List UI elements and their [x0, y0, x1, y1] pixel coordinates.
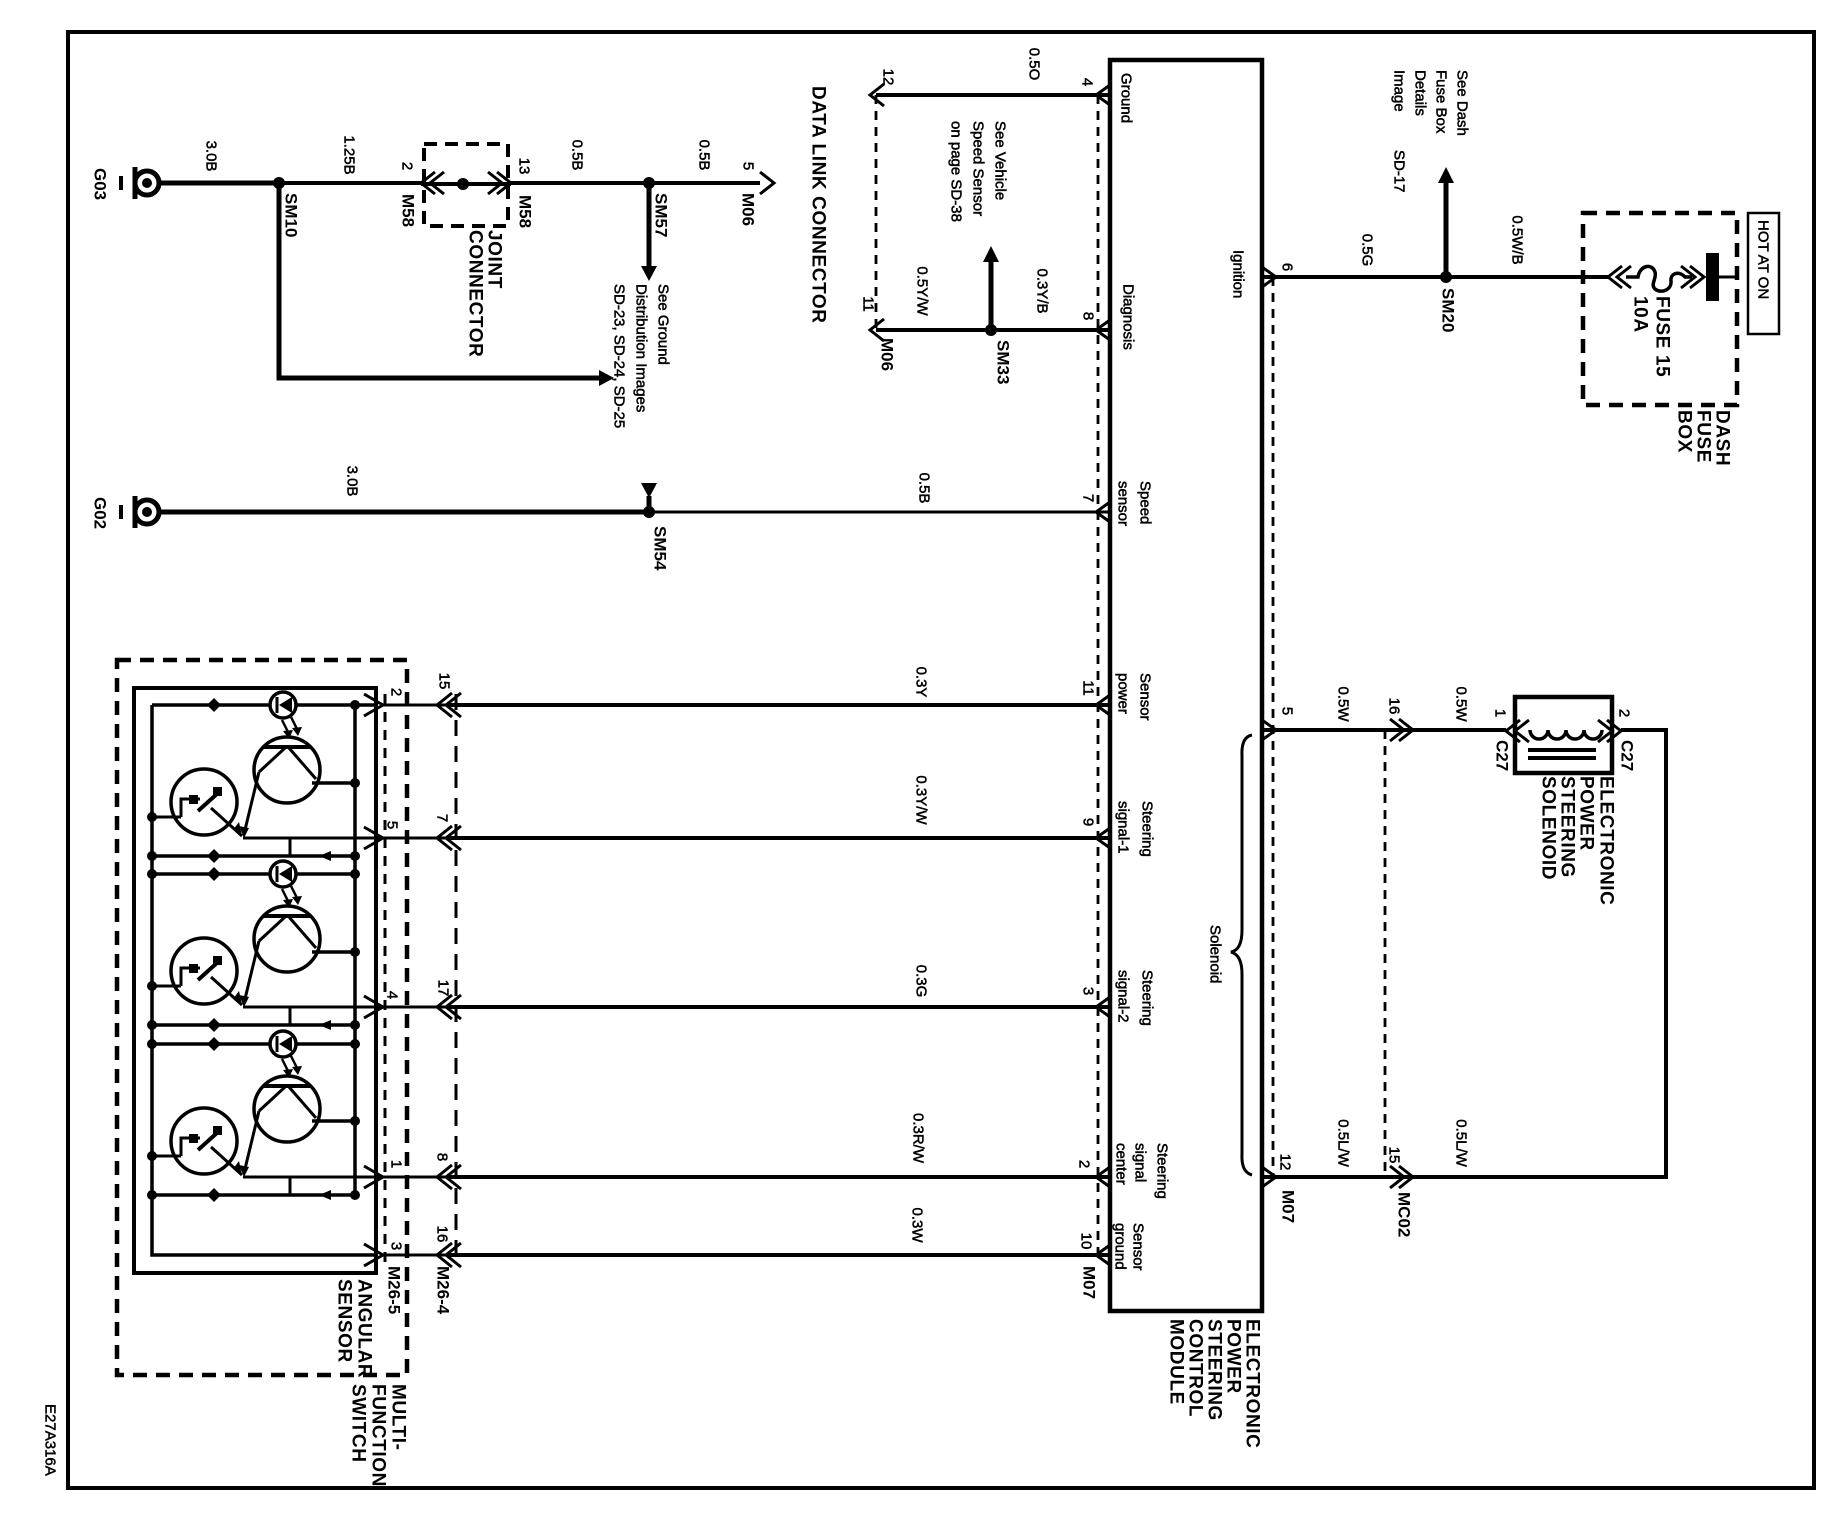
svg-text:Steering: Steering [1139, 970, 1156, 1026]
junction SM54 [643, 506, 655, 518]
sensor pin 5 arrow [364, 827, 383, 849]
svg-text:SM10: SM10 [282, 193, 301, 237]
svg-text:11: 11 [860, 296, 877, 312]
pin number 5 [1279, 707, 1296, 715]
svg-text:0.3Y: 0.3Y [913, 667, 930, 698]
svg-text:10A: 10A [1630, 296, 1651, 333]
wire 0.5Y/W pin11 to SM33 [876, 328, 991, 332]
svg-text:6: 6 [1279, 263, 1296, 271]
svg-text:SM54: SM54 [651, 526, 670, 571]
pin number 1 [1492, 709, 1509, 717]
wire 1.25B SM10 to M58 [279, 181, 421, 185]
pin number 17 [435, 980, 452, 997]
value label 1.25B [341, 135, 358, 174]
svg-text:STEERING: STEERING [1557, 776, 1578, 878]
wire 0.5W/B SM20 to fuse box [1446, 275, 1608, 279]
pin number 4 [1079, 78, 1096, 86]
light arrows D2 [282, 886, 302, 908]
connector pin 17 chevron [437, 995, 461, 1019]
svg-text:SENSOR: SENSOR [334, 1279, 355, 1363]
pin number 2 [399, 162, 416, 170]
value label 0.3Y [913, 667, 930, 698]
pin number 7 [434, 814, 451, 822]
connector pin 7 chevron [437, 826, 461, 850]
pin number 9 [1080, 818, 1097, 826]
value label 0.5W [1453, 686, 1470, 722]
wire cell1 bus [147, 849, 360, 863]
label M06 [739, 193, 758, 226]
pin number 1 [388, 1160, 405, 1168]
connector face M07 dashed left [1097, 95, 1100, 1256]
wire rail to Q3B [147, 1151, 181, 1161]
svg-text:M07: M07 [1279, 1190, 1298, 1223]
value label 0.3Y/W [913, 775, 930, 825]
terminal pin 5 M06 chevron [760, 172, 774, 194]
svg-text:G03: G03 [91, 168, 110, 200]
connector face M26-4 dashed [455, 694, 458, 1262]
note see ground distribution [611, 284, 672, 428]
wire SM10 branch down and right [279, 183, 599, 378]
svg-text:Solenoid: Solenoid [1207, 925, 1224, 983]
phototransistor Q2A [239, 906, 320, 1007]
junction mark cell3 [207, 1037, 221, 1051]
angular sensor box [134, 688, 376, 1273]
svg-text:Steering: Steering [1139, 801, 1156, 857]
module pin 7 chevron [1096, 502, 1110, 522]
connector face M07 dashed right [1272, 277, 1275, 1178]
arrow to ground distribution note [641, 266, 657, 281]
label SM57 [652, 193, 671, 237]
label SM20 [1439, 288, 1458, 332]
svg-text:signal-2: signal-2 [1115, 970, 1132, 1023]
wire SM57 down to note arrow [647, 183, 652, 267]
svg-text:0.3W: 0.3W [909, 1207, 926, 1243]
svg-text:See Vehicle: See Vehicle [992, 121, 1009, 200]
svg-text:15: 15 [436, 673, 453, 690]
svg-text:FUNCTION: FUNCTION [368, 1384, 389, 1487]
svg-text:Speed: Speed [1137, 481, 1154, 524]
module pin 4 chevron [1096, 85, 1110, 105]
svg-text:signal-1: signal-1 [1115, 801, 1132, 854]
pin number 5 [740, 162, 757, 170]
power tag HOT AT ON [1748, 213, 1779, 334]
note see vehicle speed sensor [948, 121, 1009, 222]
value label 0.5W/B [1509, 215, 1526, 264]
svg-text:3.0B: 3.0B [344, 466, 361, 497]
pin number 5 [384, 821, 401, 829]
brace solenoid pin group [1231, 735, 1252, 1175]
phototransistor Q1A [239, 737, 320, 838]
label M58 (pin 13) [516, 195, 535, 228]
fuse F15 supply bar [1706, 253, 1737, 301]
svg-text:HOT AT ON: HOT AT ON [1755, 220, 1772, 299]
wire 0.5B SM54 to module pin 7 [649, 511, 1110, 514]
svg-text:11: 11 [1080, 680, 1097, 696]
junction mark cell2 [207, 867, 221, 881]
svg-text:3: 3 [1080, 987, 1097, 995]
svg-text:MC02: MC02 [1395, 1192, 1414, 1237]
svg-text:FUSE 15: FUSE 15 [1652, 296, 1673, 377]
svg-text:0.5L/W: 0.5L/W [1335, 1119, 1352, 1167]
label Solenoid [1207, 925, 1224, 983]
svg-text:See Dash: See Dash [1454, 70, 1471, 136]
junction inside joint connector [421, 178, 511, 190]
svg-text:E27A316A: E27A316A [42, 1404, 59, 1476]
pin number 2 [388, 688, 405, 696]
wire cell2 photodiode row [147, 869, 360, 879]
wire rail to Q1B [147, 812, 181, 822]
label M07 (pin 12) [1279, 1190, 1298, 1223]
svg-text:13: 13 [516, 158, 533, 175]
pin name Steering signal-1 [1115, 801, 1156, 857]
svg-text:0.5W: 0.5W [1453, 686, 1470, 722]
label DASH FUSE BOX [1674, 410, 1733, 466]
phototransistor Q3A [239, 1076, 320, 1177]
solenoid L1 coil [1530, 730, 1602, 739]
label G02 [91, 497, 110, 529]
pin number 12 [880, 69, 897, 86]
pin number 12 [1277, 1154, 1294, 1171]
pin number 2 [1616, 709, 1633, 717]
svg-text:STEERING: STEERING [1204, 1319, 1225, 1421]
photodiode D1 [270, 692, 296, 718]
svg-text:0.5B: 0.5B [569, 140, 586, 171]
pin number 6 [1279, 263, 1296, 271]
svg-text:M07: M07 [1080, 1266, 1099, 1299]
wire sensor left rail [152, 705, 376, 1255]
svg-text:SM33: SM33 [994, 340, 1013, 384]
svg-text:SWITCH: SWITCH [348, 1384, 369, 1463]
transistor Q1B [171, 769, 242, 836]
value label 3.0B [344, 466, 361, 497]
connector pin 2 M58 chevron [421, 172, 444, 194]
fuse F15 chevron right [1681, 266, 1704, 288]
wire 0.3W sensor pin3 to module pin 10 [383, 1254, 1110, 1257]
value label 0.5L/W left [1335, 1119, 1352, 1167]
label M26-5 [385, 1266, 404, 1314]
fuse F15 chevron left [1608, 266, 1631, 288]
svg-text:1: 1 [388, 1160, 405, 1168]
svg-text:9: 9 [1080, 818, 1097, 826]
junction SM10 [273, 177, 285, 189]
pin number 7 [1080, 494, 1097, 502]
value label 0.3R/W [910, 1113, 927, 1164]
pin number 2 [1076, 1160, 1093, 1168]
module pin 12 chevron [1262, 1167, 1276, 1187]
svg-text:10: 10 [1078, 1233, 1095, 1250]
pin number 11 [1080, 680, 1097, 696]
connector face M06 dashed [875, 95, 878, 330]
label M07 (pin 10) [1080, 1266, 1099, 1299]
transistor Q3B [171, 1108, 242, 1175]
svg-text:16: 16 [434, 1226, 451, 1243]
svg-text:on page SD-38: on page SD-38 [948, 121, 965, 222]
module pin 11 chevron [1096, 695, 1110, 715]
module pin 2 chevron [1096, 1167, 1110, 1187]
pin number 11 [860, 296, 877, 312]
connector pin 16 chevron [437, 1243, 461, 1267]
svg-text:CONNECTOR: CONNECTOR [465, 230, 486, 358]
ground G02 [121, 496, 159, 528]
wire Q3A collector to rail [312, 1116, 360, 1126]
wire 0.3Y sensor pin2 to module pin 11 [383, 704, 1110, 707]
wire cell2 output [243, 1007, 383, 1025]
label FUSE 15 10A [1630, 296, 1673, 377]
svg-text:0.5Y/W: 0.5Y/W [914, 266, 931, 316]
note see dash fuse box details [1391, 70, 1471, 193]
svg-text:2: 2 [1616, 709, 1633, 717]
svg-text:0.5O: 0.5O [1026, 48, 1043, 81]
wire cell3 output [243, 1177, 383, 1195]
svg-text:SOLENOID: SOLENOID [1538, 776, 1559, 880]
svg-text:1: 1 [1492, 709, 1509, 717]
svg-text:Steering: Steering [1154, 1143, 1171, 1199]
wire cell1 photodiode row [152, 703, 378, 707]
wire 0.3G sensor pin4 to module pin 3 [383, 1006, 1110, 1009]
joint connector dashed box [424, 144, 508, 226]
pin name Diagnosis [1120, 284, 1137, 350]
svg-text:2: 2 [1076, 1160, 1093, 1168]
pin name Sensor ground [1112, 1223, 1147, 1271]
svg-text:Ground: Ground [1118, 73, 1135, 123]
wire solenoid pin2 loop to module pin 12 [1262, 730, 1666, 1177]
svg-text:power: power [1115, 673, 1132, 714]
label G03 [91, 168, 110, 200]
pin number 8 [434, 1153, 451, 1161]
pin number 10 [1078, 1233, 1095, 1250]
svg-text:ground: ground [1112, 1223, 1129, 1270]
label M58 [399, 194, 418, 227]
pin number 16 [434, 1226, 451, 1243]
wire 0.5G module pin6 to SM20 [1262, 275, 1446, 279]
svg-text:3: 3 [388, 1242, 405, 1250]
svg-text:DATA LINK CONNECTOR: DATA LINK CONNECTOR [808, 86, 829, 324]
wire cell2 bus [147, 1018, 360, 1032]
wire sensor right rail [353, 705, 357, 1195]
pin number 3 [388, 1242, 405, 1250]
svg-text:4: 4 [384, 991, 401, 999]
connector pin 15 chevron [1390, 1166, 1413, 1188]
sensor pin 1 arrow [364, 1166, 383, 1188]
wire 0.3Y/W sensor pin5 to module pin 9 [383, 837, 1110, 840]
solenoid pin 1 chevron [1506, 720, 1529, 742]
label MULTI-FUNCTION SWITCH [348, 1384, 409, 1487]
solenoid pin 2 chevron [1598, 720, 1621, 742]
wire cell1 output [243, 838, 383, 856]
svg-text:JOINT: JOINT [484, 230, 505, 289]
module pin 6 chevron [1262, 267, 1276, 287]
svg-text:Sensor: Sensor [1137, 673, 1154, 721]
terminal pin 12 chevron [870, 84, 884, 106]
wire 0.3Y/B SM33 to module pin 8 [991, 328, 1110, 332]
connector pin 13 M58 chevron [488, 172, 511, 194]
wire 0.5B SM57 to M06 [649, 181, 760, 185]
svg-text:SM20: SM20 [1439, 288, 1458, 332]
svg-text:Image: Image [1391, 70, 1408, 112]
svg-text:8: 8 [434, 1153, 451, 1161]
svg-text:5: 5 [740, 162, 757, 170]
svg-text:7: 7 [1080, 494, 1097, 502]
wire Q1A collector to rail [312, 778, 360, 788]
sensor pin 3 arrow [364, 1244, 383, 1266]
svg-text:See Ground: See Ground [655, 284, 672, 365]
terminal pin 11 chevron [870, 319, 884, 341]
svg-text:MODULE: MODULE [1166, 1319, 1187, 1405]
value label 3.0B [203, 141, 220, 172]
svg-text:12: 12 [880, 69, 897, 86]
label SM33 [994, 340, 1013, 384]
arrow SM20 to dash fuse box note [1438, 167, 1454, 277]
svg-text:ELECTRONIC: ELECTRONIC [1242, 1319, 1263, 1449]
junction SM57 [643, 177, 655, 189]
svg-text:C27: C27 [1493, 740, 1512, 771]
svg-text:G02: G02 [91, 497, 110, 529]
svg-text:0.5B: 0.5B [916, 473, 933, 504]
wire 3.0B G03 to SM10 [159, 181, 279, 186]
light arrows D3 [282, 1056, 302, 1078]
svg-text:5: 5 [1279, 707, 1296, 715]
junction SM20 [1440, 271, 1452, 283]
pin number 15 [436, 673, 453, 690]
value label 0.5B [696, 140, 713, 171]
label C27 (pin 1) [1493, 740, 1512, 771]
svg-text:0.3G: 0.3G [913, 965, 930, 998]
value label 0.5B [916, 473, 933, 504]
junction dot rail right top [350, 700, 360, 710]
svg-text:15: 15 [1386, 1147, 1403, 1164]
pin number 3 [1080, 987, 1097, 995]
wire 0.5O pin12 to module pin 4 [876, 93, 1110, 97]
svg-text:M58: M58 [516, 195, 535, 228]
pin name Steering signal center [1113, 1143, 1171, 1199]
svg-text:0.3Y/B: 0.3Y/B [1034, 268, 1051, 313]
svg-text:8: 8 [1080, 312, 1097, 320]
svg-text:16: 16 [1386, 698, 1403, 715]
pin number 8 [1080, 312, 1097, 320]
connector pin 16 chevron [1390, 719, 1413, 741]
svg-text:CONTROL: CONTROL [1185, 1319, 1206, 1417]
wire rail to Q2B [147, 981, 181, 991]
arrow to ground distribution note (branch) [599, 370, 614, 386]
photodiode D2 [270, 861, 296, 887]
module pin 10 chevron [1096, 1245, 1110, 1265]
pin name Steering signal-2 [1115, 970, 1156, 1026]
svg-text:Details: Details [1412, 70, 1429, 116]
label SM10 [282, 193, 301, 237]
module pin 3 chevron [1096, 997, 1110, 1017]
svg-text:DASH: DASH [1712, 410, 1733, 466]
value label 0.5O [1026, 48, 1043, 81]
wire 0.5W module pin5 to connector 16 [1262, 728, 1506, 732]
label DATA LINK CONNECTOR [808, 86, 829, 324]
solenoid L1 core [1528, 750, 1596, 758]
svg-text:3.0B: 3.0B [203, 141, 220, 172]
value label 0.3Y/B [1034, 268, 1051, 313]
transistor Q2B [171, 938, 242, 1005]
value label 0.5G [1359, 234, 1376, 267]
photodiode D3 [270, 1031, 296, 1057]
svg-text:SD-17: SD-17 [1391, 150, 1408, 193]
wire Q2A collector to rail [312, 947, 360, 957]
module pin 8 chevron [1096, 320, 1110, 340]
svg-text:sensor: sensor [1115, 481, 1132, 526]
connector face M26-5 dashed [384, 694, 387, 1262]
module pin 5 chevron [1262, 720, 1276, 740]
fuse F15 element [1626, 266, 1692, 291]
svg-text:Ignition: Ignition [1230, 250, 1247, 298]
svg-text:2: 2 [399, 162, 416, 170]
svg-text:signal: signal [1132, 1143, 1149, 1182]
pin name Sensor power [1115, 673, 1154, 721]
svg-text:Distribution Images: Distribution Images [633, 284, 650, 412]
connector pin 8 chevron [437, 1165, 461, 1189]
value label 0.3G [913, 965, 930, 998]
module pin 9 chevron [1096, 828, 1110, 848]
svg-text:7: 7 [434, 814, 451, 822]
svg-text:M26-5: M26-5 [385, 1266, 404, 1314]
svg-text:17: 17 [435, 980, 452, 997]
label M06 [878, 338, 897, 371]
light arrows D1 [282, 717, 302, 739]
label ANGULAR SENSOR [334, 1279, 375, 1378]
sensor pin 2 arrow [364, 694, 383, 716]
svg-text:Speed Sensor: Speed Sensor [970, 121, 987, 216]
ground G03 [121, 167, 159, 199]
drawing number E27A316A [42, 1404, 59, 1476]
svg-text:POWER: POWER [1223, 1319, 1244, 1394]
svg-text:M06: M06 [739, 193, 758, 226]
junction mark cell1 [207, 698, 221, 712]
value label 0.5B [569, 140, 586, 171]
sensor pin 4 arrow [364, 996, 383, 1018]
svg-text:0.5L/W: 0.5L/W [1453, 1119, 1470, 1167]
label M26-4 [434, 1266, 453, 1315]
pin number 13 [516, 158, 533, 175]
svg-text:SM57: SM57 [652, 193, 671, 237]
dash fuse box dashed outline [1583, 213, 1737, 405]
svg-text:MULTI-: MULTI- [388, 1384, 409, 1451]
label MC02 [1395, 1192, 1414, 1237]
solenoid L1 box [1515, 697, 1612, 773]
value label 0.5W [1335, 686, 1352, 722]
connector face MC02 dashed [1384, 730, 1387, 1177]
svg-text:0.5B: 0.5B [696, 140, 713, 171]
svg-text:ANGULAR: ANGULAR [354, 1279, 375, 1378]
wire cell3 bus [147, 1188, 360, 1202]
svg-text:M26-4: M26-4 [434, 1266, 453, 1315]
pin number 16 [1386, 698, 1403, 715]
label JOINT CONNECTOR [465, 230, 505, 358]
svg-text:0.5W/B: 0.5W/B [1509, 215, 1526, 264]
svg-text:12: 12 [1277, 1154, 1294, 1171]
label ELECTRONIC POWER STEERING CONTROL MODULE [1166, 1319, 1263, 1449]
junction SM33 [985, 324, 997, 336]
svg-text:2: 2 [388, 688, 405, 696]
arrow from note to SM54 [641, 483, 657, 512]
value label 0.5L/W right [1453, 1119, 1470, 1167]
wire 0.5B M58 to SM57 [511, 181, 649, 185]
value label 0.3W [909, 1207, 926, 1243]
svg-text:1.25B: 1.25B [341, 135, 358, 174]
pin number 15 [1386, 1147, 1403, 1164]
pin name Speed sensor [1115, 481, 1154, 526]
connector pin 15 chevron [437, 693, 461, 717]
svg-text:0.3R/W: 0.3R/W [910, 1113, 927, 1164]
module ELECTRONIC POWER STEERING CONTROL MODULE box [1110, 60, 1262, 1311]
svg-text:Diagnosis: Diagnosis [1120, 284, 1137, 350]
wire cell3 photodiode row [147, 1039, 360, 1049]
pin number 4 [384, 991, 401, 999]
